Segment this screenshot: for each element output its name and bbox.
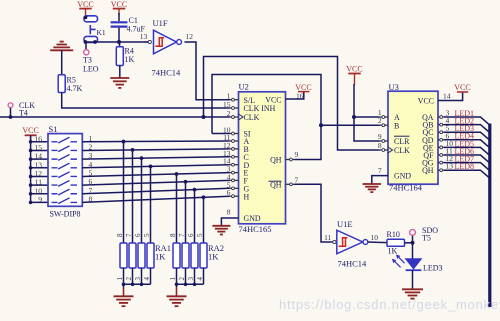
svg-text:2: 2 (378, 116, 382, 125)
svg-text:5: 5 (143, 233, 151, 237)
wire CLK net horizontal (0, 116, 230, 118)
junction RA2 bottom (184, 283, 188, 287)
U2 pin 7 /QH (286, 183, 295, 185)
wire node to SDO port (412, 235, 414, 243)
resistor RA2 element 4 (200, 243, 207, 268)
junction RA2 bottom (193, 283, 197, 287)
switch S1 element 7 (52, 189, 78, 195)
svg-text:1K: 1K (125, 55, 135, 64)
svg-text:8: 8 (227, 208, 231, 217)
svg-text:CLK: CLK (244, 113, 260, 122)
wire RA2 bottom bar (177, 283, 204, 285)
wire RA1 bottom pin 4 (150, 268, 152, 284)
svg-text:QH: QH (270, 181, 282, 190)
svg-text:7: 7 (295, 175, 299, 184)
wire node to U3 B (321, 124, 380, 126)
svg-text:1: 1 (89, 134, 93, 143)
op-amp U1E 74HC14 inverter (337, 230, 363, 254)
wire QG to bus (444, 163, 489, 170)
svg-text:6: 6 (227, 188, 231, 197)
U2 CLK edge mark (239, 114, 244, 120)
junction below VCC K1 (84, 15, 88, 19)
junction RA1 bottom (122, 283, 126, 287)
svg-text:VCC: VCC (111, 0, 127, 9)
junction drop 6 (184, 180, 188, 184)
svg-text:6: 6 (89, 177, 93, 186)
wire RA1 bottom pin 1 (123, 268, 125, 284)
wire S1 pin 8 to U2 (82, 196, 229, 202)
U3 pin 6 QD (438, 139, 444, 141)
svg-text:8: 8 (89, 194, 93, 203)
wire SI stub (212, 133, 230, 135)
wire VCC to A and CLR (354, 84, 380, 141)
wire RA2 bottom pin 1 (176, 268, 178, 284)
junction K1 left (84, 40, 88, 44)
svg-text:9: 9 (295, 150, 299, 159)
svg-text:4.7K: 4.7K (67, 84, 83, 93)
svg-text:U3: U3 (389, 82, 399, 92)
svg-text:SW-DIP8: SW-DIP8 (49, 210, 80, 219)
svg-text:14: 14 (35, 152, 43, 161)
wire VCC to C1 (118, 13, 120, 21)
junction drop 2 (131, 148, 135, 152)
svg-text:VCC: VCC (265, 95, 281, 104)
bus to LEDs (488, 124, 491, 308)
svg-text:1K: 1K (388, 247, 398, 256)
svg-text:4: 4 (89, 160, 93, 169)
LED D3 arrows (394, 256, 405, 267)
svg-text:6: 6 (187, 233, 195, 237)
svg-text:15: 15 (35, 143, 43, 152)
U3 pin 9 CLR (380, 140, 389, 142)
wire QH to bus (444, 170, 489, 177)
resistor RA1 element 2 (129, 243, 136, 268)
junction RA1 bottom (131, 283, 135, 287)
switch S1 element 6 (52, 181, 78, 187)
wire CLK riser to top rail (204, 57, 380, 151)
ground below RA1 (114, 295, 134, 297)
wire S1 pin 1 to U2 (82, 140, 229, 143)
junction S1 left pin 12 (29, 175, 33, 179)
junction S1 left pin 15 (29, 149, 33, 153)
wire S1 left pin 9 (31, 201, 48, 203)
svg-text:CLK INH: CLK INH (244, 104, 276, 113)
ground at U3 pin 7 (363, 183, 382, 185)
svg-text:B: B (394, 121, 399, 130)
svg-text:9: 9 (38, 195, 42, 204)
svg-text:QH: QH (270, 156, 282, 165)
U2 pin 2 CLK (230, 116, 239, 118)
U3 pin 10 QE (438, 146, 444, 148)
svg-text:74HC14: 74HC14 (152, 68, 182, 78)
svg-text:QH: QH (422, 166, 434, 175)
svg-text:VCC: VCC (418, 97, 434, 106)
junction SDO node (411, 241, 415, 245)
svg-text:7: 7 (378, 166, 382, 175)
wire QB to bus (444, 125, 489, 132)
svg-text:13: 13 (35, 160, 43, 169)
wire S1 pin 5 to U2 (82, 173, 229, 177)
wire S1 left pin 10 (31, 193, 48, 195)
U3 pin 13 QH (438, 169, 444, 171)
wire drop to RA pin 6 (194, 190, 196, 243)
junction drop 5 (175, 172, 179, 176)
U2 pin 11 A (230, 140, 239, 142)
U2 pin 16 VCC (286, 92, 304, 99)
wire to U3 A (354, 116, 380, 118)
svg-text:10: 10 (35, 186, 43, 195)
resistor R10 (387, 239, 405, 246)
svg-text:VCC: VCC (346, 65, 362, 74)
svg-text:GND: GND (244, 214, 261, 223)
U2 pin 1 S/L (230, 99, 239, 101)
svg-text:T3: T3 (83, 55, 92, 64)
wire RA2 bottom pin 2 (185, 268, 187, 284)
svg-text:1K: 1K (208, 252, 219, 262)
wire drop to RA pin 5 (150, 166, 152, 243)
wire S1 left pin 11 (31, 184, 48, 186)
ground below LED3 (402, 288, 423, 290)
wire S1 pin 2 to U2 (82, 149, 229, 151)
wire S1 left pin 14 (31, 158, 48, 160)
resistor R5 (58, 75, 65, 93)
junction RA1 bottom (140, 283, 144, 287)
wire K1 node to U1F input (86, 41, 149, 43)
junction S1 left pin 9 (29, 201, 33, 205)
svg-text:16: 16 (296, 92, 304, 101)
junction T4 (9, 115, 13, 119)
U3 pin 5 QC (438, 131, 444, 133)
wire RA1 bottom pin 3 (141, 268, 143, 284)
svg-text:3: 3 (89, 151, 93, 160)
switch S1 SW-DIP8 body (48, 134, 82, 207)
svg-text:7: 7 (125, 233, 133, 237)
wire RA2 bottom pin 3 (194, 268, 196, 284)
svg-text:R10: R10 (387, 230, 400, 239)
svg-text:13: 13 (446, 162, 454, 171)
U2 pin 8 GND (221, 218, 238, 226)
IC U2 74HC165 body (239, 92, 286, 224)
wire drop to RA pin 8 (123, 142, 125, 243)
port T5 SDO (410, 230, 416, 236)
wire RA2 to ground (176, 284, 178, 287)
svg-text:7: 7 (89, 186, 93, 195)
wire T3 stem (85, 42, 87, 50)
wire S1 left pin 13 (31, 167, 48, 169)
U3 pin 14 VCC (438, 92, 463, 101)
U2 pin 5 G (230, 187, 239, 189)
LED D3 (406, 259, 422, 269)
junction C1/R4 node (117, 40, 121, 44)
junction drop 7 (193, 188, 197, 192)
svg-text:VCC: VCC (295, 83, 311, 92)
wire U1F output to U2 S/L (185, 42, 230, 100)
wire S1 pin 4 to U2 (82, 165, 229, 168)
switch S1 element 1 (52, 137, 78, 143)
wire RA1 to ground (123, 284, 125, 287)
svg-text:14: 14 (443, 92, 451, 101)
resistor RA1 element 1 (120, 243, 127, 268)
svg-text:LEO: LEO (83, 65, 99, 74)
svg-text:GND: GND (394, 172, 411, 181)
junction CLK riser (202, 115, 206, 119)
resistor RA1 element 3 (138, 243, 145, 268)
wire /QH to U1E input (295, 184, 332, 242)
wire C1 to node (118, 28, 120, 42)
capacitor C1 (111, 21, 128, 23)
wire S1 pin 3 to U2 (82, 157, 229, 159)
junction drop 1 (122, 140, 126, 144)
wire S1 VCC bus vertical (30, 135, 32, 202)
svg-text:T5: T5 (422, 233, 431, 242)
U2 pin 13 C (230, 156, 239, 158)
wire U1E output to R10 (368, 241, 387, 244)
port T4 CLK (8, 103, 13, 108)
wire drop to RA pin 8 (176, 174, 178, 243)
ground below R4 (110, 77, 129, 79)
U2 pin 3 E (230, 172, 239, 174)
svg-text:9: 9 (378, 132, 382, 141)
wire drop to RA pin 7 (132, 150, 134, 243)
wire drop to RA pin 6 (141, 158, 143, 243)
resistor RA2 element 3 (191, 243, 198, 268)
svg-text:VCC: VCC (77, 0, 93, 9)
U2 pin 14 D (230, 164, 239, 166)
U3 pin 4 QB (438, 124, 444, 126)
junction S1 left pin 16 (29, 140, 33, 144)
resistor RA2 element 2 (182, 243, 189, 268)
svg-text:1K: 1K (155, 252, 166, 262)
junction drop 4 (149, 164, 153, 168)
U3 pin 11 QF (438, 154, 444, 156)
U2 pin 15 CLK INH (230, 107, 239, 109)
switch S1 element 5 (52, 172, 78, 178)
junction QH/B node (319, 123, 323, 127)
junction S1 left pin 10 (29, 192, 33, 196)
switch S1 element 2 (52, 146, 78, 152)
switch K1 (84, 16, 98, 22)
svg-text:74HC165: 74HC165 (239, 224, 272, 234)
wire drop to RA pin 5 (203, 197, 205, 243)
junction drop 8 (202, 195, 206, 199)
switch S1 element 4 (52, 163, 78, 169)
wire node to R4 (119, 42, 121, 47)
U3 pin 12 QG (438, 162, 444, 164)
wire S1 left pin 16 (31, 141, 48, 143)
U2 pin 9 QH (286, 159, 295, 161)
wire QE to bus (444, 147, 489, 154)
U3 pin 8 CLK (380, 149, 389, 151)
svg-text:LED3: LED3 (423, 264, 443, 273)
svg-text:8: 8 (116, 233, 124, 237)
U3 pin 7 GND (372, 176, 388, 184)
wire S1 left pin 15 (31, 149, 48, 151)
svg-text:74HC164: 74HC164 (389, 183, 423, 193)
port T3 (84, 50, 89, 55)
wire U1F input stub (145, 41, 148, 43)
wire QD to bus (444, 140, 489, 147)
wire RA1 bottom pin 2 (132, 268, 134, 284)
svg-text:T4: T4 (19, 108, 28, 117)
U3 CLK edge mark (388, 147, 393, 153)
svg-text:LED8: LED8 (455, 162, 475, 171)
switch S1 element 8 (52, 198, 78, 204)
ground below RA2 (167, 295, 187, 297)
svg-text:15: 15 (223, 100, 231, 109)
svg-text:2: 2 (89, 142, 93, 151)
svg-text:K1: K1 (97, 28, 106, 37)
svg-text:7: 7 (178, 233, 186, 237)
svg-text:10: 10 (371, 233, 379, 242)
IC U3 74HC164 body (388, 91, 438, 184)
U2 pin 4 F (230, 179, 239, 181)
wire QC to bus (444, 132, 489, 139)
junction S1 left pin 11 (29, 183, 33, 187)
svg-text:8: 8 (378, 141, 382, 150)
svg-text:U1F: U1F (153, 18, 168, 28)
resistor RA2 element 1 (173, 243, 180, 268)
wire QF to bus (444, 155, 489, 162)
svg-text:H: H (244, 192, 250, 201)
svg-text:8: 8 (169, 233, 177, 237)
wire S1 left pin 12 (31, 175, 48, 177)
svg-text:https://blog.csdn.net/geek_mon: https://blog.csdn.net/geek_monkey (279, 297, 500, 312)
wire R10 to node (405, 242, 413, 244)
U3 CLR overline (394, 135, 410, 137)
wire drop to RA pin 7 (185, 182, 187, 243)
U3 pin 2 B (380, 124, 389, 126)
svg-text:VCC: VCC (454, 83, 470, 92)
resistor R4 (116, 47, 123, 66)
wire SI net top rail (212, 75, 321, 134)
op-amp U1F 74HC14 inverter (154, 30, 177, 54)
junction K1 right (93, 40, 97, 44)
svg-text:12: 12 (186, 32, 194, 41)
svg-text:CLK: CLK (394, 146, 410, 155)
ground above R5 (inverted) (50, 49, 73, 51)
svg-text:U2: U2 (239, 82, 249, 92)
resistor RA1 element 4 (147, 243, 154, 268)
svg-text:U1E: U1E (337, 219, 353, 229)
ground at U2 pin 8 (212, 225, 230, 227)
U3 pin 3 QA (438, 116, 444, 118)
U2 pin 10 SI (230, 133, 239, 135)
svg-text:74HC14: 74HC14 (338, 259, 368, 269)
svg-text:11: 11 (35, 178, 42, 187)
U2 pin 6 H (230, 195, 239, 197)
wire RA2 bottom pin 4 (203, 268, 205, 284)
wire T4 stem (10, 108, 12, 117)
wire node to LED3 (412, 243, 414, 259)
wire ground to R5 (61, 50, 63, 75)
wire R4 to ground (119, 66, 121, 79)
junction RA2 bottom (175, 283, 179, 287)
junction drop 3 (140, 156, 144, 160)
U3 pin 1 A (380, 116, 389, 118)
junction S1 left pin 13 (29, 166, 33, 170)
svg-text:2: 2 (227, 109, 231, 118)
svg-text:12: 12 (35, 169, 43, 178)
wire LED3 to ground (412, 270, 414, 289)
U2 pin 12 B (230, 148, 239, 150)
svg-text:CLR: CLR (394, 137, 410, 146)
wire RA1 bottom bar (124, 283, 151, 285)
wire S1 pin 7 to U2 (82, 188, 229, 193)
svg-text:11: 11 (324, 233, 331, 242)
wire S1 pin 6 to U2 (82, 180, 229, 185)
wire QH to node (295, 125, 322, 159)
svg-text:13: 13 (140, 32, 148, 41)
svg-text:5: 5 (196, 233, 204, 237)
switch S1 element 3 (52, 155, 78, 161)
svg-text:5: 5 (89, 168, 93, 177)
svg-text:16: 16 (35, 134, 43, 143)
wire R5 to CLK INH net (62, 93, 230, 109)
svg-text:S1: S1 (49, 124, 58, 134)
svg-text:6: 6 (134, 233, 142, 237)
wire U1E input stub (331, 241, 333, 243)
junction S1 left pin 14 (29, 157, 33, 161)
wire QA to bus (444, 117, 489, 124)
junction U3 A (352, 115, 356, 119)
